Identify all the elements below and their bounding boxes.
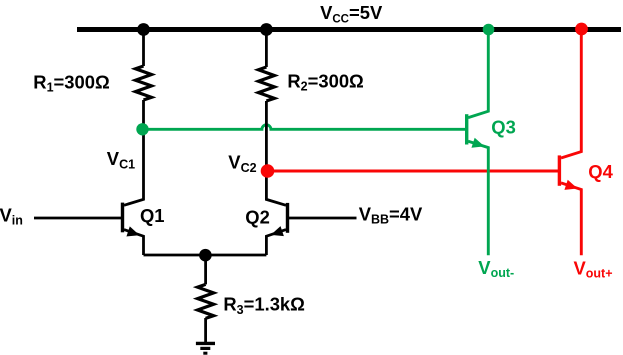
transistor Q1 emitter arrow [126, 226, 141, 240]
node red dot on rail [575, 23, 588, 36]
transistor Q3 emitter arrow [471, 138, 486, 152]
resistor R3 [198, 284, 214, 318]
transistor Q3 collector [468, 30, 488, 118]
node junction dot rail left [137, 23, 150, 36]
svg-text:VBB=4V: VBB=4V [359, 203, 423, 226]
transistor Q2 emitter arrow [269, 226, 284, 240]
svg-text:Q2: Q2 [245, 207, 270, 228]
node VC2 red dot [261, 164, 275, 178]
wire R3 bottom lead [204, 318, 207, 342]
resistor R2 [258, 67, 274, 101]
transistor Q3 emitter [468, 141, 488, 255]
svg-text:R2=300Ω: R2=300Ω [287, 70, 363, 93]
transistor Q4 emitter [561, 183, 581, 255]
node VC1 green dot [136, 123, 148, 135]
wire R3 top lead [204, 255, 207, 284]
wire Q2 base to VBB [288, 217, 357, 220]
svg-text:Q3: Q3 [491, 117, 516, 138]
wire R1 top lead [142, 30, 145, 67]
ground [196, 343, 215, 353]
transistor Q4 collector [561, 29, 581, 158]
wire R2 bottom lead through node VC2 to Q2 collector [266, 101, 286, 205]
transistor Q3 base bar [465, 114, 468, 144]
transistor Q4 emitter arrow [564, 180, 579, 194]
transistor Q1 base bar [121, 203, 124, 233]
node emitter junction dot [199, 249, 212, 262]
transistor Q4 base bar [558, 155, 561, 185]
svg-text:R1=300Ω: R1=300Ω [33, 71, 109, 94]
wire Vin to Q1 base [34, 217, 123, 220]
wire Q1 collector vertical [124, 129, 144, 205]
node green dot on rail [483, 24, 495, 36]
svg-text:Q1: Q1 [140, 205, 165, 226]
transistor Q2 emitter [266, 230, 286, 255]
wire VCC rail [77, 27, 621, 32]
wire R1 bottom lead to node VC1 [142, 100, 145, 130]
wire R2 top lead [265, 30, 268, 68]
transistor Q2 base bar [286, 203, 289, 233]
svg-text:VCC=5V: VCC=5V [320, 2, 383, 25]
wire VC2 to Q4 base (red) [268, 170, 560, 173]
svg-text:Q4: Q4 [588, 161, 613, 182]
wire VC1 to Q3 base (green, hops over R2 line) [143, 125, 467, 130]
svg-text:R3=1.3kΩ: R3=1.3kΩ [223, 294, 305, 317]
node junction dot rail right [260, 23, 273, 36]
wire emitters joining bottom [144, 254, 267, 257]
transistor Q1 emitter [124, 230, 144, 255]
resistor R1 [136, 66, 152, 100]
